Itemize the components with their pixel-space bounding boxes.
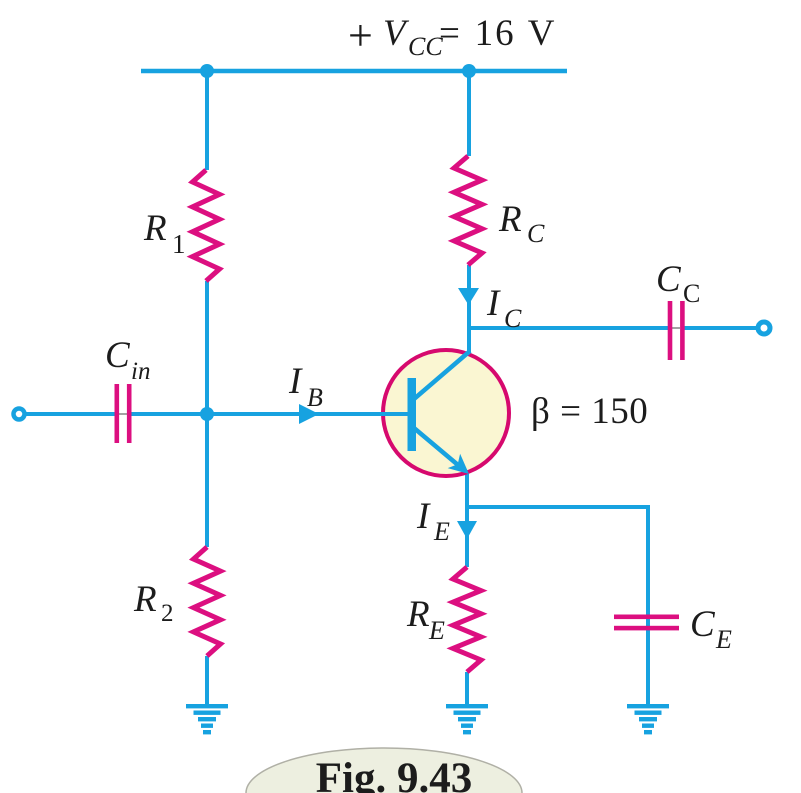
- svg-text:C: C: [527, 219, 545, 248]
- wire: emitter branch horizontal to CE column: [467, 505, 650, 509]
- ground: RE: [446, 704, 488, 734]
- wire: left branch vertical (R1/R2 column): [205, 71, 209, 706]
- svg-text:Fig. 9.43: Fig. 9.43: [316, 755, 472, 793]
- svg-text:+: +: [348, 11, 373, 60]
- wire: input lead to Cin: [26, 412, 115, 416]
- arrow IC on collector wire: [458, 288, 479, 305]
- ground: CE: [627, 704, 669, 734]
- capacitor Cin: [115, 384, 132, 443]
- transistor Q1 collector diagonal: [414, 351, 470, 399]
- label CE: [690, 604, 732, 654]
- figure caption ellipse: [246, 748, 522, 793]
- svg-text:V: V: [383, 13, 410, 54]
- wire: base lead inside transistor: [381, 412, 409, 416]
- svg-text:I: I: [486, 283, 501, 324]
- wire: right branch vertical (Rc / collector column): [467, 71, 471, 352]
- capacitor CC: [668, 301, 685, 360]
- svg-text:R: R: [143, 208, 167, 249]
- label R2: [133, 579, 174, 627]
- resistor RE: [453, 567, 481, 672]
- svg-text:1: 1: [172, 229, 186, 259]
- label Cin: [105, 335, 150, 385]
- transistor Q1 base bar: [408, 378, 417, 451]
- transistor Q1 circle body: [383, 350, 509, 476]
- input terminal: [14, 409, 25, 420]
- output terminal: [758, 322, 770, 334]
- svg-text:C: C: [683, 279, 700, 308]
- svg-text:C: C: [105, 335, 131, 376]
- svg-text:C: C: [656, 259, 682, 300]
- label IB: [288, 361, 323, 412]
- node: rail junction over R1: [200, 64, 214, 78]
- node: rail junction over Rc: [462, 64, 476, 78]
- arrow IB on base wire: [299, 404, 319, 424]
- svg-text:= 16 V: = 16 V: [439, 13, 556, 54]
- wire: +Vcc top rail: [141, 69, 567, 74]
- capacitor CE: [614, 615, 679, 631]
- svg-text:in: in: [131, 358, 150, 385]
- svg-text:R: R: [498, 199, 522, 240]
- svg-text:B: B: [307, 383, 323, 412]
- label +Vcc = 16 V: [348, 11, 556, 61]
- ground: R2: [186, 704, 228, 734]
- resistor R1: [193, 170, 220, 281]
- wire: emitter vertical to RE: [465, 473, 469, 706]
- svg-text:E: E: [428, 616, 445, 645]
- wire: collector output horizontal to Cc: [469, 326, 668, 330]
- label R1: [143, 208, 186, 259]
- svg-text:C: C: [690, 604, 716, 645]
- svg-text:R: R: [133, 579, 157, 620]
- wire: CE vertical: [646, 507, 650, 706]
- transistor Q1 emitter diagonal with arrow: [414, 428, 469, 474]
- label IC: [486, 283, 522, 333]
- wire: Cin to base node and base wire into transistor: [131, 412, 408, 416]
- resistor RC: [454, 156, 482, 265]
- label RC: [498, 199, 545, 248]
- figure caption text Fig. 9.43: [316, 755, 472, 793]
- svg-text:β = 150: β = 150: [531, 391, 648, 432]
- svg-text:I: I: [416, 496, 431, 537]
- svg-text:E: E: [433, 517, 450, 546]
- label beta = 150: [531, 391, 648, 432]
- label RE: [406, 594, 445, 645]
- label CC: [656, 259, 700, 308]
- arrow IE on emitter wire: [457, 521, 477, 539]
- label IE: [416, 496, 450, 546]
- svg-text:R: R: [406, 594, 430, 635]
- resistor R2: [194, 547, 221, 656]
- wire: Cc to output terminal: [684, 326, 757, 330]
- svg-text:E: E: [715, 625, 732, 654]
- svg-text:2: 2: [161, 600, 174, 627]
- svg-text:C: C: [504, 304, 522, 333]
- node: base node (R1/R2/Cin junction): [200, 407, 214, 421]
- svg-text:I: I: [288, 361, 303, 402]
